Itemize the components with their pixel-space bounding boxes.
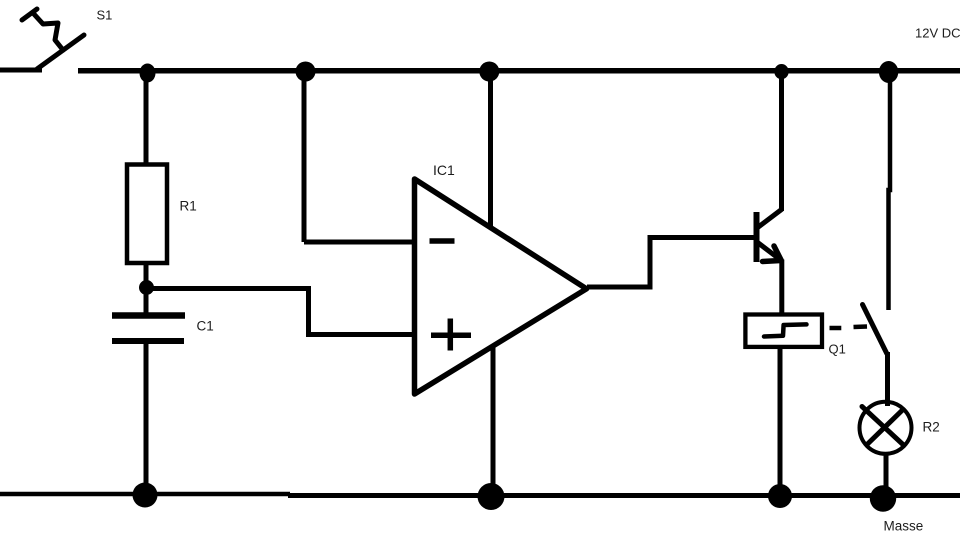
node collector tap on top rail xyxy=(774,64,788,79)
capacitor C1 top plate xyxy=(112,312,185,319)
node bottom rail C1 xyxy=(133,483,158,508)
node minus tap on top rail xyxy=(296,62,316,82)
node op-amp power tap xyxy=(479,62,499,82)
wire top rail left stub xyxy=(0,68,42,73)
wire contact to lamp xyxy=(885,352,890,406)
svg-text:Masse: Masse xyxy=(884,519,924,534)
node bottom rail relay xyxy=(768,484,792,508)
svg-text:Q1: Q1 xyxy=(829,342,846,357)
capacitor C1 bottom plate xyxy=(112,338,184,344)
wire junction to C1 xyxy=(144,290,149,313)
wire bottom rail right xyxy=(288,493,960,498)
switch S1 actuator xyxy=(22,9,63,50)
svg-text:R1: R1 xyxy=(180,199,197,214)
op-amp IC1 xyxy=(415,179,587,394)
node bottom rail op-amp xyxy=(478,483,505,510)
transistor emitter diagonal xyxy=(757,242,780,260)
transistor base bar xyxy=(754,212,760,262)
node lamp tap on top rail xyxy=(879,61,898,83)
relay step symbol xyxy=(764,324,807,336)
node R1-C1 junction xyxy=(139,280,154,295)
wire R1 top lead xyxy=(144,72,149,166)
wire lamp to bottom rail xyxy=(884,452,889,496)
wire op-amp ground xyxy=(491,345,496,492)
wire op-amp plus input xyxy=(306,332,414,337)
wire bottom rail xyxy=(0,492,290,497)
wire op-amp power xyxy=(488,71,493,228)
relay contact arm xyxy=(863,305,887,354)
wire op-amp output xyxy=(587,238,754,288)
node top rail R1 tap xyxy=(140,64,156,83)
lamp R2 cross xyxy=(862,407,904,446)
op-amp plus symbol xyxy=(431,319,471,351)
lamp R2 circle xyxy=(860,402,912,454)
transistor collector diagonal xyxy=(757,210,782,229)
svg-text:IC1: IC1 xyxy=(433,162,455,178)
svg-text:S1: S1 xyxy=(97,8,113,23)
wire emitter to relay xyxy=(779,260,784,315)
svg-text:12V DC: 12V DC xyxy=(915,26,960,41)
wire op-amp minus vertical xyxy=(302,71,307,242)
wire C1 to bottom rail xyxy=(144,344,149,492)
node bottom rail lamp xyxy=(870,485,896,511)
wire lamp branch upper xyxy=(889,71,891,310)
svg-text:C1: C1 xyxy=(197,319,214,334)
svg-text:R2: R2 xyxy=(923,420,940,435)
wire R1 to junction xyxy=(144,263,149,290)
wire junction to jog xyxy=(146,286,309,291)
transistor emitter arrowhead xyxy=(763,246,782,262)
wire op-amp minus input xyxy=(304,240,414,245)
dashed mechanical link xyxy=(830,327,868,329)
wire top rail xyxy=(78,68,960,74)
op-amp minus symbol xyxy=(430,238,455,244)
wire jog vertical xyxy=(306,286,311,335)
relay coil box Q1 xyxy=(745,315,822,347)
resistor R1 xyxy=(127,165,167,264)
switch S1 arm xyxy=(37,35,84,69)
wire collector to rail xyxy=(779,71,784,211)
wire relay to bottom rail xyxy=(778,349,783,492)
